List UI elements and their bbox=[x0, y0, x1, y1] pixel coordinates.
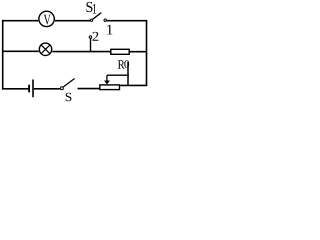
wire middle rail right (lamp to R0) bbox=[52, 51, 111, 53]
rheostat slider arrow head bbox=[104, 81, 110, 85]
battery B1 short plate bbox=[28, 85, 30, 93]
wire top rail right (contact 1 to right vertical) bbox=[107, 20, 148, 22]
lamp L1 cross diagonal 1 bbox=[41, 45, 50, 54]
wire R0 right to right vertical bbox=[129, 51, 146, 53]
wire top rail middle (voltmeter to S1) bbox=[55, 20, 90, 22]
label 2 (contact 2) bbox=[92, 32, 98, 41]
rheostat R2 box bbox=[100, 85, 120, 90]
switch S pivot ring bbox=[60, 87, 63, 90]
label S1 - S bbox=[86, 2, 92, 12]
label 1 (contact 1) bbox=[107, 25, 112, 35]
lamp L1 cross diagonal 2 bbox=[41, 45, 50, 54]
switch S1 pivot ring bbox=[90, 19, 92, 21]
wire bottom-right horizontal (rheostat to right vertical) bbox=[120, 84, 147, 86]
wire switch S to rheostat bbox=[78, 88, 100, 90]
switch S lever bbox=[63, 79, 74, 87]
contact 2 ring bbox=[89, 36, 92, 39]
wire right vertical bbox=[146, 21, 148, 86]
label R0 - R bbox=[118, 60, 125, 69]
wire bottom rail left (to battery) bbox=[2, 88, 29, 90]
wire battery to switch S bbox=[34, 88, 61, 90]
rheostat slider arrow shaft bbox=[106, 75, 108, 81]
switch S1 lever bbox=[93, 13, 101, 20]
voltmeter V1 circle bbox=[39, 11, 54, 26]
label S (bottom switch) bbox=[66, 93, 72, 101]
switch S1 contact 1 ring bbox=[104, 19, 106, 21]
wire top rail left bbox=[2, 20, 38, 22]
label S1 - subscript 1 bbox=[93, 4, 96, 14]
lamp L1 circle bbox=[39, 43, 51, 55]
wire branch contact 2 to middle rail bbox=[90, 39, 92, 52]
wire rheostat slider horizontal bbox=[107, 74, 129, 76]
wire connector vertical (R0/slider/bottom) bbox=[127, 62, 129, 86]
battery B1 long plate bbox=[32, 80, 34, 98]
voltmeter letter V bbox=[44, 15, 51, 25]
resistor R0 box bbox=[111, 49, 129, 54]
wire middle rail left (to lamp) bbox=[2, 50, 39, 52]
wire left vertical bbox=[2, 21, 4, 90]
label R0 - subscript 0 bbox=[124, 60, 129, 68]
